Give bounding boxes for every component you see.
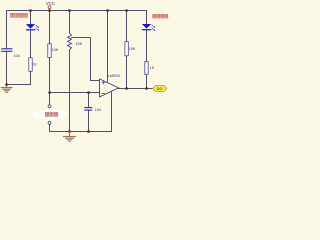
wire LED2 to R4 (146, 30, 148, 62)
wire rail to potentiometer RP (69, 11, 71, 34)
op-amp plus sign (102, 81, 105, 84)
LED D2 switch indicator (142, 24, 151, 30)
svg-text:104: 104 (14, 54, 20, 58)
node junction top rail / R3 pull-up (125, 9, 127, 11)
wire rail to R2 (49, 11, 51, 44)
wire op-amp V- to bottom rail (111, 92, 113, 132)
wire R4 to output (146, 74, 148, 89)
wire R3 to output (126, 56, 128, 89)
node junction R4 / output (145, 87, 147, 89)
capacitor C2 104 (85, 108, 92, 111)
node junction top rail / LED1 (29, 9, 31, 11)
wire op-amp output to port (119, 88, 153, 90)
svg-text:10K: 10K (129, 47, 136, 51)
resistor R1 1K (box) (29, 58, 32, 72)
wire bottom-left horizontal (7, 84, 31, 86)
sensor terminal 1 (open circle) (48, 105, 51, 108)
svg-text:104: 104 (95, 108, 101, 112)
power port VCC (48, 6, 51, 9)
wire R2 to sensor node (49, 58, 51, 93)
wire RP wiper to op-amp plus input (72, 38, 100, 81)
svg-text:LM393: LM393 (108, 73, 121, 78)
wire sensor terminal 2 to bottom rail corner (50, 125, 112, 132)
wire left branch down to capacitor C1 (6, 11, 8, 49)
node junction sensor divider (48, 91, 50, 93)
wire potentiometer bottom to bottom rail (69, 50, 71, 132)
resistor R4 1K (box) (145, 62, 148, 75)
resistor R3 10K pull-up (box) (125, 42, 128, 56)
svg-text:VCC: VCC (46, 1, 55, 6)
potentiometer RP 10K (zigzag) (68, 33, 72, 50)
port DO (yellow) (153, 86, 167, 92)
svg-text:1K: 1K (33, 62, 38, 66)
svg-text:10K: 10K (52, 48, 59, 52)
label 传感器 (sensor) (45, 112, 58, 116)
wire op-amp V+ supply (107, 11, 109, 83)
svg-text:DO: DO (157, 87, 163, 91)
node junction R3 / output (125, 87, 127, 89)
wire C1 bottom to ground corner (6, 52, 8, 85)
node junction top rail / R2 column (48, 9, 50, 11)
svg-text:10K: 10K (76, 42, 83, 46)
sensor bubble highlight (33, 110, 68, 120)
wire LED1 to R1 (30, 30, 32, 58)
node junction top rail / potentiometer (68, 9, 70, 11)
label 电源指示 (power indicator, red) (10, 13, 27, 17)
wire node to sensor terminal 1 (49, 93, 51, 105)
node junction C2 bottom on rail (87, 130, 89, 132)
wire sensor node to op-amp minus input (50, 92, 100, 94)
ground GND2 (63, 132, 75, 142)
svg-text:1K: 1K (150, 66, 155, 70)
LED D1 emission arrows (36, 25, 40, 30)
wire rail to LED1 (30, 11, 32, 25)
op-amp U1 LM393 (100, 79, 119, 97)
resistor R2 10K (box) (48, 44, 51, 58)
wire C2 top lead (88, 93, 90, 108)
wire R1 to bottom-left (30, 71, 32, 84)
capacitor C1 104 (2, 49, 12, 52)
node junction C2 top (87, 91, 89, 93)
ground GND1 (1, 85, 12, 93)
LED D2 emission arrows (152, 25, 156, 30)
wire top rail corner to LED2 (146, 11, 148, 25)
LED D1 power indicator (26, 24, 35, 30)
label 开关指示 (switch indicator, red) (153, 14, 168, 18)
wire C2 bottom lead to bottom rail (88, 111, 90, 132)
node junction top rail / op-amp V+ (106, 9, 108, 11)
node junction at ground corner (5, 83, 7, 85)
sensor terminal 2 (open circle) (48, 122, 51, 125)
op-amp minus sign (102, 93, 105, 95)
node junction pot bottom on rail (68, 130, 70, 132)
wire rail to R3 pull-up (126, 11, 128, 42)
wire top rail VCC (7, 10, 147, 12)
